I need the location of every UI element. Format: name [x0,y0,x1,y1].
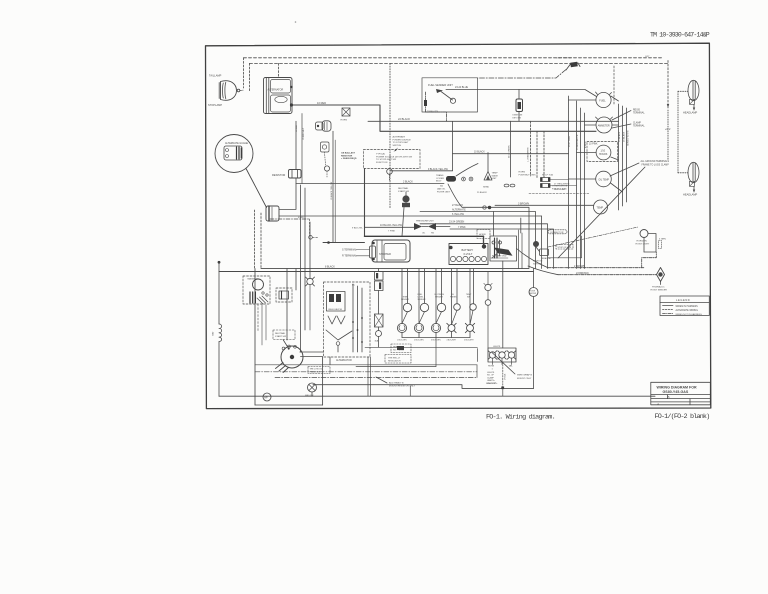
svg-text:9 BLACK-YELLOW: 9 BLACK-YELLOW [428,168,449,171]
svg-text:PUSH BUTTONS: PUSH BUTTONS [519,174,537,176]
svg-text:HORN: HORN [519,172,526,174]
svg-text:SENDER: SENDER [401,299,410,301]
svg-text:23 BROWN: 23 BROWN [576,272,589,275]
svg-text:BRACKET+: BRACKET+ [487,382,499,385]
svg-text:27 BLK: 27 BLK [505,373,507,380]
svg-text:8 BLACK: 8 BLACK [325,265,335,268]
svg-text:ADD HEAVY B: ADD HEAVY B [389,381,404,384]
svg-text:FOR MIL LP AID: FOR MIL LP AID [552,188,567,191]
svg-text:THE LOW OIL: THE LOW OIL [310,369,324,371]
svg-text:HOIST SENDER: HOIST SENDER [651,289,668,291]
svg-text:MOUNT RESISTOR ONLY: MOUNT RESISTOR ONLY [389,386,416,388]
svg-text:ALTERNATOR: ALTERNATOR [268,89,284,92]
svg-text:2 BLK-GRN: 2 BLK-GRN [414,340,424,342]
svg-text:IGNITION: IGNITION [513,115,523,117]
svg-text:LIGHTS: LIGHTS [487,372,495,374]
svg-text:STARTER: STARTER [379,252,391,256]
svg-text:HOIST LIGHT: HOIST LIGHT [636,244,650,246]
svg-text:IGNITION: IGNITION [533,261,543,263]
svg-text:BOLT: BOLT [436,181,442,183]
svg-text:JAM OIL: JAM OIL [437,188,446,191]
svg-text:TAIL: TAIL [509,365,514,368]
svg-text:STOPLAMP: STOPLAMP [208,103,222,107]
svg-text:27 BLACK: 27 BLACK [452,204,464,207]
svg-text:GS80-Y45-GAS: GS80-Y45-GAS [663,390,689,394]
svg-text:SW: SW [467,297,470,299]
svg-text:CLAMP: CLAMP [487,376,495,379]
svg-text:10 BLACK-YELLOW: 10 BLACK-YELLOW [380,224,403,227]
svg-text:TEMP: TEMP [597,207,604,210]
svg-text:FILTER UNIT: FILTER UNIT [437,191,451,193]
svg-text:LAMPS+: LAMPS+ [487,379,496,382]
svg-text:WIRING DIAGRAM FOR: WIRING DIAGRAM FOR [657,385,698,389]
svg-text:TRANS: TRANS [436,174,444,177]
svg-text:5 GRN: 5 GRN [659,239,666,241]
svg-text:UNIT: UNIT [492,178,498,180]
svg-text:25 LT GRN: 25 LT GRN [569,136,571,147]
svg-text:ALTERNATE WIRING: ALTERNATE WIRING [676,309,699,312]
svg-text:NEUTRAL: NEUTRAL [398,187,409,190]
svg-text:SENDER: SENDER [418,299,427,301]
svg-text:HEADLAMP: HEADLAMP [683,193,698,197]
svg-text:6 YELLOW: 6 YELLOW [452,213,465,216]
svg-text:AMMETER: AMMETER [598,124,610,127]
svg-text:POWER SOURCE: POWER SOURCE [393,139,412,141]
svg-text:10 BLACK: 10 BLACK [474,151,485,154]
svg-text:FRAME TO LUGS CLAMP: FRAME TO LUGS CLAMP [642,163,670,166]
svg-text:FUEL SENDER UNIT: FUEL SENDER UNIT [428,83,453,87]
svg-text:NO. OF: NO. OF [487,375,495,377]
svg-text:5A: 5A [440,185,443,188]
svg-text:26 BLACK: 26 BLACK [622,131,625,142]
svg-text:STOP OF HGR: STOP OF HGR [558,247,572,249]
svg-text:METER: METER [530,293,537,295]
svg-text:10 BLACK YELLOW: 10 BLACK YELLOW [330,182,333,200]
svg-text:SWITCH: SWITCH [393,145,402,147]
svg-text:HORN: HORN [488,366,495,368]
svg-text:23-24 BLUE: 23-24 BLUE [455,86,468,89]
svg-text:25 BLACK: 25 BLACK [618,131,621,142]
svg-text:HORN: HORN [479,234,486,236]
svg-text:24 LT GREEN: 24 LT GREEN [509,145,511,158]
svg-text:2 BROWN: 2 BROWN [574,265,585,268]
svg-text:WIRE WRAP B: WIRE WRAP B [517,374,532,377]
svg-text:LEGEND: LEGEND [676,298,690,302]
svg-text:OIL: OIL [422,233,426,235]
svg-text:TAILLAMP: TAILLAMP [209,74,222,78]
svg-text:MAG SW: MAG SW [305,394,313,397]
svg-text:GAGE: GAGE [492,174,499,177]
svg-text:7 PINK: 7 PINK [388,231,395,233]
svg-text:4 RED: 4 RED [298,217,304,219]
svg-text:CLAMP: CLAMP [633,122,641,125]
svg-text:5 BLK-WHT: 5 BLK-WHT [464,340,474,342]
svg-text:HG: HG [431,233,434,235]
svg-text:CONNECTOR: CONNECTOR [550,232,564,234]
svg-text:25 RED-WHITE: 25 RED-WHITE [577,134,579,150]
svg-text:7 PINK: 7 PINK [458,226,466,229]
svg-text:27 THRD-WHITE: 27 THRD-WHITE [554,183,570,185]
svg-text:ALTERNATE: ALTERNATE [452,208,466,211]
svg-text:ALTERNATE: ALTERNATE [393,136,406,139]
svg-text:HOUR: HOUR [530,291,536,293]
svg-text:TYPICAL: TYPICAL [376,153,386,156]
svg-text:TERMINAL: TERMINAL [633,125,645,128]
svg-text:START SW: START SW [275,335,287,338]
svg-text:BC: BC [352,284,355,286]
svg-text:TO STOPLIGHT SW: TO STOPLIGHT SW [376,159,397,161]
svg-text:HORIZON: HORIZON [637,241,648,243]
svg-text:TEMP: TEMP [492,173,499,175]
svg-text:START SW: START SW [398,190,410,193]
svg-text:SWITCH: SWITCH [533,263,542,265]
svg-text:POWER SOURCE (STOPLIGHT SW: POWER SOURCE (STOPLIGHT SW [376,156,413,158]
svg-text:29 BLACK: 29 BLACK [477,191,487,194]
svg-text:BATTERY: BATTERY [462,248,474,252]
svg-text:1/10: 1/10 [601,151,606,153]
svg-text:FUNCTION: FUNCTION [376,162,388,164]
svg-text:WIRES IN HARNESS: WIRES IN HARNESS [676,305,699,308]
svg-text:KEY SW: KEY SW [513,117,522,119]
svg-text:+ WHEN REQD: + WHEN REQD [341,158,357,160]
svg-text:FUEL: FUEL [599,100,606,103]
svg-text:SERIES WHITE: SERIES WHITE [628,130,630,146]
svg-text:10 RED-WHT: 10 RED-WHT [303,127,305,140]
svg-text:HEADLAMP: HEADLAMP [683,111,698,115]
svg-text:ALTERNATE GUAGE: ALTERNATE GUAGE [225,142,248,145]
svg-text:HORN: HORN [341,120,348,122]
svg-text:RESIS: RESIS [633,110,640,112]
svg-text:TO STOPLIGHT: TO STOPLIGHT [393,142,410,144]
svg-text:THE RED-LT: THE RED-LT [388,357,401,359]
svg-text:2 BLACK: 2 BLACK [403,180,413,183]
svg-text:CB BALLAST: CB BALLAST [341,152,356,155]
svg-text:OIL TEMP: OIL TEMP [599,179,610,181]
svg-text:PRESS: PRESS [450,297,457,299]
svg-text:6-VOLT: 6-VOLT [464,252,473,256]
svg-text:3 BROWN: 3 BROWN [518,202,529,205]
svg-text:BAT: BAT [212,331,215,336]
svg-text:10 RED: 10 RED [317,101,326,105]
svg-text:RESISTOR: RESISTOR [341,155,353,157]
svg-text:22 BLACK: 22 BLACK [398,117,410,121]
svg-text:1-1 RED-WHITE: 1-1 RED-WHITE [528,147,530,162]
svg-text:R TERMINAL: R TERMINAL [342,255,357,258]
svg-text:FO-1. Wiring diagram.: FO-1. Wiring diagram. [486,413,555,421]
svg-text:NEUTRAL: NEUTRAL [275,332,286,335]
svg-text:4 BLK-WHT: 4 BLK-WHT [447,340,457,342]
svg-text:FO-1/(FO-2 blank): FO-1/(FO-2 blank) [655,413,710,421]
svg-text:REGULATOR: REGULATOR [329,308,343,311]
svg-text:SENDER: SENDER [435,297,444,299]
svg-text:10 RED: 10 RED [296,124,298,132]
svg-text:MAGNETO: MAGNETO [248,278,259,281]
svg-text:HOURS: HOURS [599,154,608,156]
svg-text:HP LP TOA: HP LP TOA [542,174,553,177]
svg-text:FENDER GND: FENDER GND [492,256,507,258]
svg-text:ALTERNATOR: ALTERNATOR [336,359,352,362]
svg-text:10 PINK: 10 PINK [589,144,598,146]
svg-text:COVER: COVER [436,178,444,180]
svg-text:TERMINAL: TERMINAL [633,112,645,115]
svg-text:1: 1 [492,369,494,371]
svg-text:SEND: SEND [483,187,489,189]
svg-text:PRESSURE UNIT: PRESSURE UNIT [416,221,434,223]
svg-text:23-24 GREEN: 23-24 GREEN [449,221,465,224]
svg-text:REGULATOR: REGULATOR [388,359,401,362]
svg-text:30A: 30A [375,340,379,343]
svg-text:ALL GROUND TERMINALS: ALL GROUND TERMINALS [641,160,670,163]
svg-text:HP: HP [264,396,268,399]
svg-text:LIGHT SWITCH: LIGHT SWITCH [556,58,572,60]
svg-text:+C 2: +C 2 [665,128,671,131]
svg-text:WIRES NOT IN HARNESS: WIRES NOT IN HARNESS [676,313,703,316]
svg-text:RESISTOR: RESISTOR [272,173,285,177]
svg-text:4 RED: 4 RED [585,141,587,148]
svg-text:1 BLK-GRN: 1 BLK-GRN [397,340,407,342]
svg-text:9 BLK-YEL: 9 BLK-YEL [352,228,364,230]
svg-text:MOUNT ONLY: MOUNT ONLY [517,378,532,380]
svg-text:HYDRAULIC: HYDRAULIC [652,285,665,288]
svg-text:S TERMINAL: S TERMINAL [342,248,357,251]
svg-text:TM 10-3930-647-14&P: TM 10-3930-647-14&P [650,32,710,39]
svg-text:LIGHTS: LIGHTS [493,346,501,348]
